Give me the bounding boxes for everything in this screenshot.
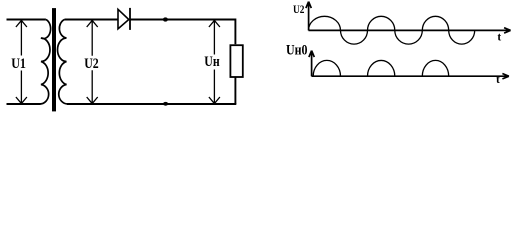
wire secondary top to diode [65,19,119,21]
wire primary top [7,19,46,21]
wire diode to load corner [130,20,236,45]
wire below resistor [234,78,236,105]
transformer secondary winding [58,20,68,105]
transformer core [52,8,56,111]
svg-text:U1: U1 [11,56,26,72]
svg-text:t: t [497,31,501,43]
transformer primary winding [40,20,51,105]
svg-text:Uн: Uн [204,54,220,70]
junction dot bottom [163,102,168,106]
diode VD cathode bar [129,8,131,30]
voltage arrow U2 [87,20,98,103]
wire secondary bottom [67,103,236,105]
resistor Rn [230,45,242,77]
junction dot top [163,17,168,21]
diode VD triangle [118,9,129,29]
svg-text:t: t [496,74,500,86]
plot1 horizontal axis [309,28,511,33]
sine wave U2 [309,16,475,44]
plot2 vertical axis [309,51,314,77]
rectified wave Un0 [313,60,449,76]
plot2 horizontal axis [312,74,509,79]
voltage arrow U1 [16,20,27,103]
plot1 vertical axis [306,2,311,31]
wire primary bottom [7,103,41,105]
svg-text:U2: U2 [84,56,99,72]
svg-text:U2: U2 [293,2,304,16]
svg-text:Uн0: Uн0 [286,42,308,58]
voltage arrow Un [209,20,220,103]
